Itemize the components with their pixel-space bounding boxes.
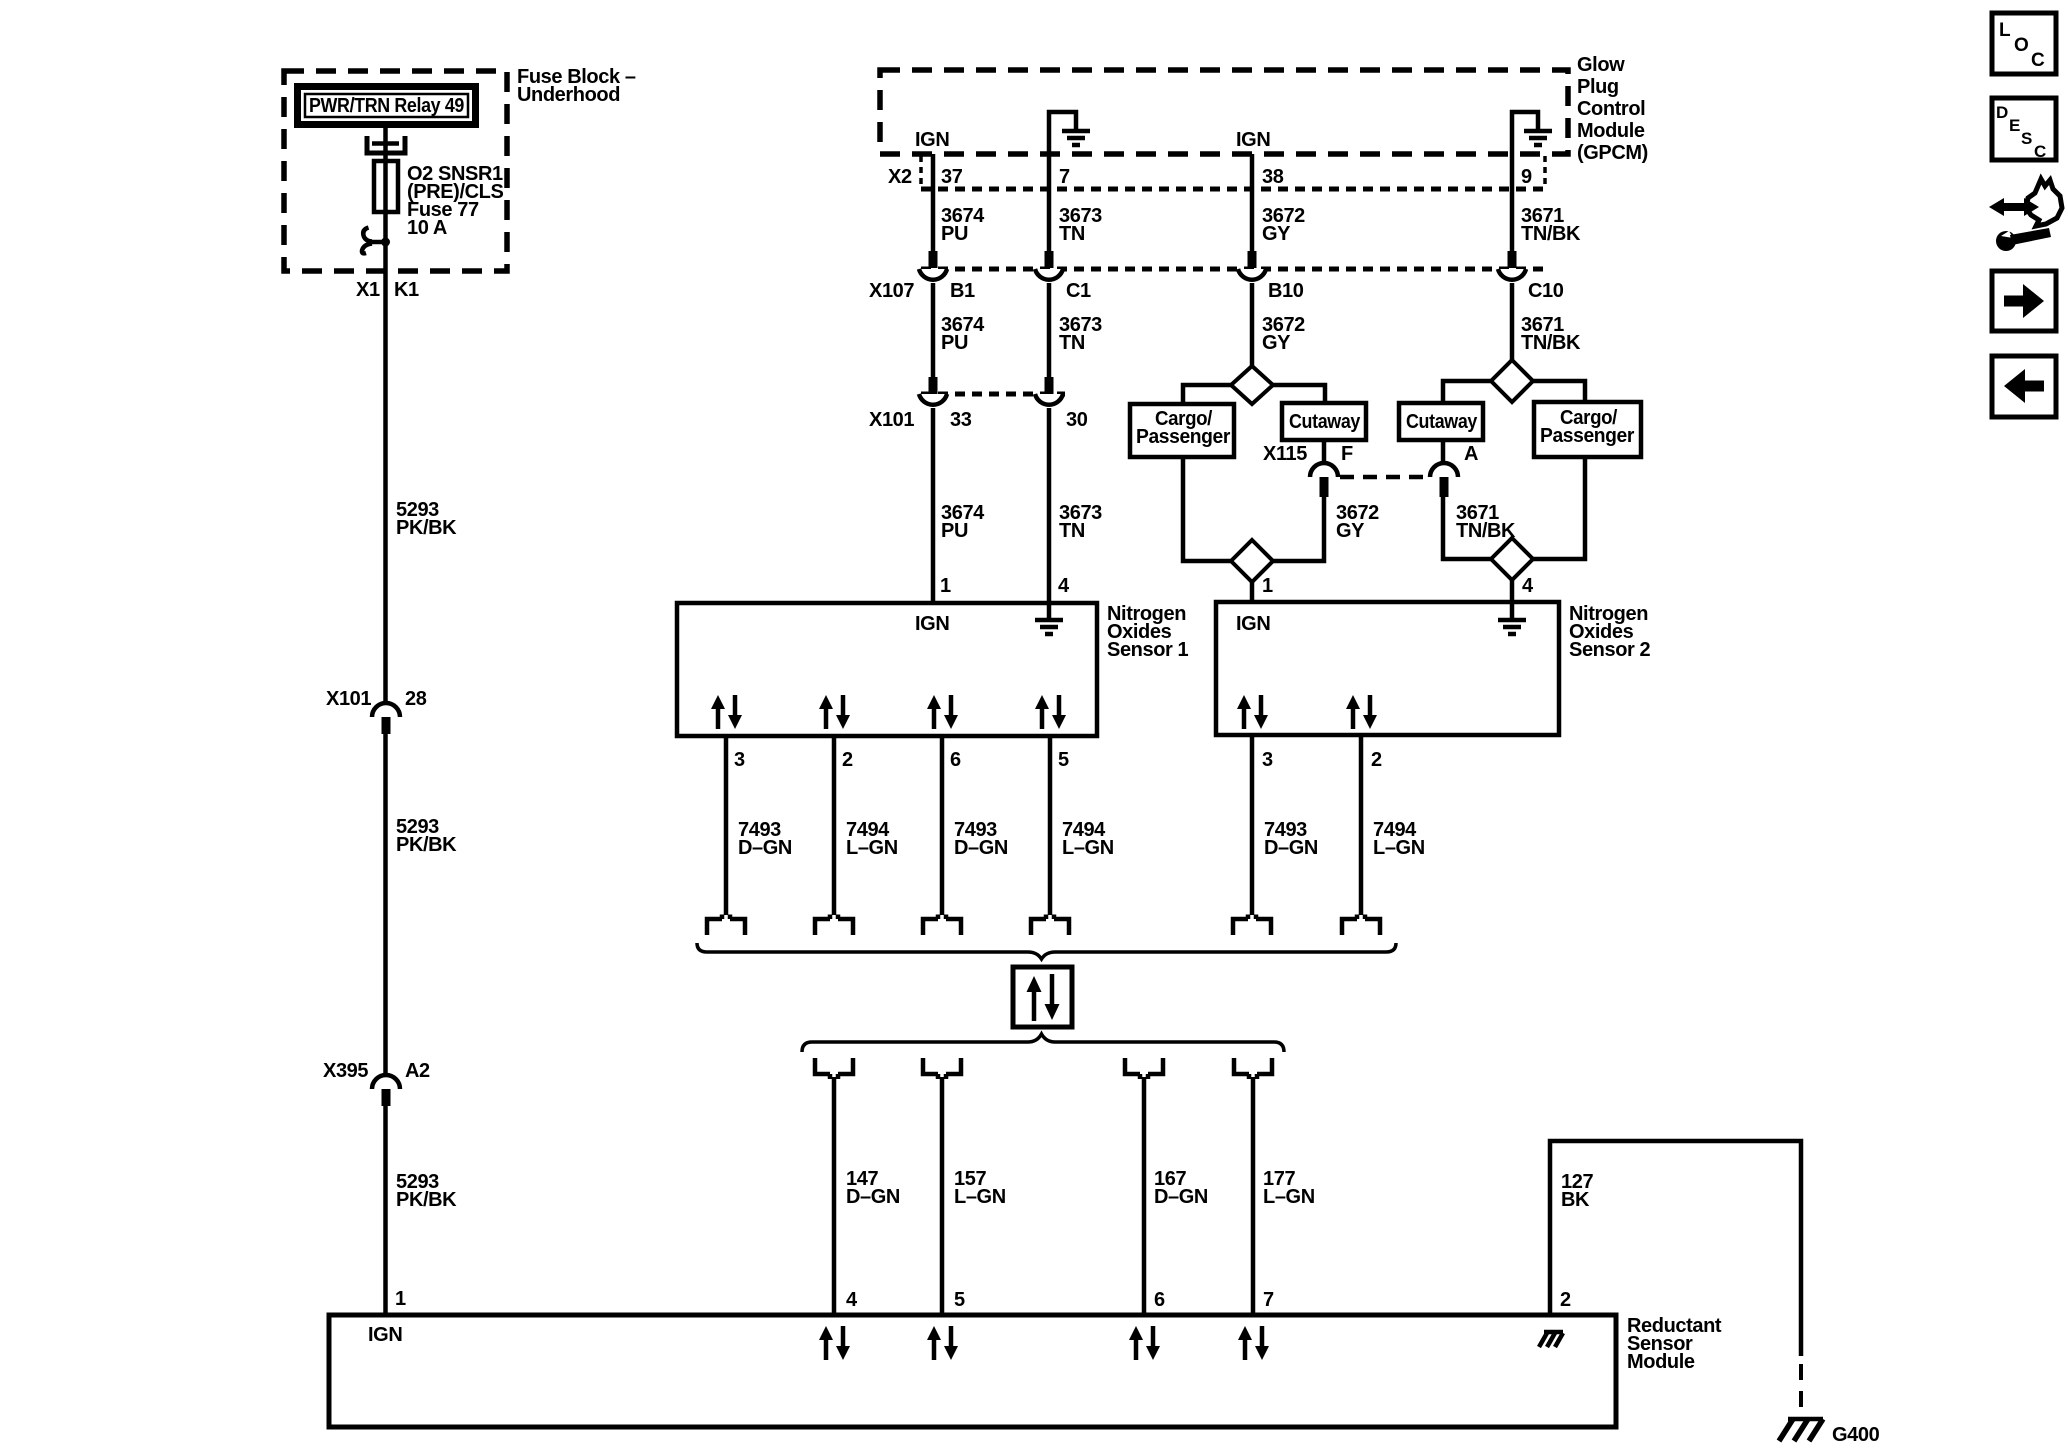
svg-text:D–GN: D–GN	[738, 837, 792, 859]
wire diamond to cargo/passenger 2	[1533, 381, 1585, 402]
chassis ground inside module at pin 2	[1539, 1332, 1563, 1347]
connector X395 pin A2	[323, 1060, 430, 1106]
connector X115 dashed link	[1340, 475, 1428, 480]
connector X107 line	[921, 267, 1545, 272]
svg-text:1: 1	[940, 575, 951, 597]
data arrows NOx1 pin2	[819, 695, 850, 729]
splice diamond upper left	[1231, 366, 1273, 404]
data arrows module pin7	[1238, 1326, 1269, 1360]
svg-text:2: 2	[1371, 749, 1382, 771]
svg-text:37: 37	[941, 166, 963, 188]
svg-text:G400: G400	[1832, 1424, 1880, 1446]
data arrows module pin4	[819, 1326, 850, 1360]
svg-text:C1: C1	[1066, 280, 1091, 302]
svg-text:TN: TN	[1059, 520, 1085, 542]
serial data symbol box with arrows	[1013, 967, 1072, 1027]
svg-text:28: 28	[405, 688, 427, 710]
wire 7494 L-GN from NOx2 pin2	[1359, 735, 1364, 915]
svg-text:38: 38	[1262, 166, 1284, 188]
wire 5293 PK/BK segment 3	[383, 1106, 388, 1315]
svg-text:TN: TN	[1059, 332, 1085, 354]
twisted pair source above wire 942	[923, 1058, 961, 1079]
svg-text:D: D	[1996, 103, 2008, 122]
svg-text:7: 7	[1263, 1289, 1274, 1311]
twisted pair terminal under wire 1252	[1233, 915, 1271, 936]
ground symbol inside GPCM at pin 9	[1512, 112, 1552, 154]
svg-text:Passenger: Passenger	[1136, 426, 1231, 448]
svg-text:IGN: IGN	[915, 613, 949, 635]
fuse F77 body O2 SNSR1 (PRE)/CLS Fuse 77 10A	[374, 161, 398, 212]
svg-text:B1: B1	[950, 280, 975, 302]
svg-text:IGN: IGN	[368, 1324, 402, 1346]
svg-text:5: 5	[954, 1289, 965, 1311]
wire diamond to NOx sensor2 pin 4	[1510, 580, 1515, 602]
svg-text:Module: Module	[1627, 1351, 1695, 1373]
connector X107 pin B10	[1238, 251, 1304, 302]
data arrows NOx2 pin3	[1237, 695, 1268, 729]
svg-text:O: O	[2014, 35, 2029, 56]
icon arrow right box	[1992, 271, 2056, 331]
data arrows NOx1 pin3	[711, 695, 742, 729]
svg-text:Sensor 1: Sensor 1	[1107, 639, 1189, 661]
svg-text:7: 7	[1059, 166, 1070, 188]
wire diamond to cargo/passenger 1	[1183, 385, 1231, 404]
wire 3674 PU segment 1	[931, 154, 936, 251]
svg-text:4: 4	[846, 1289, 858, 1311]
ground G400	[1779, 1419, 1880, 1446]
connector X115 pin A	[1430, 443, 1478, 497]
svg-text:2: 2	[1560, 1289, 1571, 1311]
wire 157 L-GN	[940, 1077, 945, 1315]
svg-text:Cutaway: Cutaway	[1406, 411, 1478, 433]
data arrows NOx1 pin6	[927, 695, 958, 729]
nitrogen oxides sensor 2 box	[1216, 602, 1559, 735]
ground symbol inside GPCM at pin 7	[1049, 112, 1090, 154]
svg-text:C10: C10	[1528, 280, 1564, 302]
svg-text:4: 4	[1522, 575, 1534, 597]
wire 147 D-GN	[832, 1077, 837, 1315]
svg-text:X1: X1	[356, 279, 380, 301]
svg-text:4: 4	[1058, 575, 1070, 597]
wire 7494 L-GN from pin5	[1048, 736, 1053, 915]
connector X107 pin C10	[1498, 251, 1564, 302]
wire 177 L-GN	[1251, 1077, 1256, 1315]
svg-text:TN: TN	[1059, 223, 1085, 245]
twisted pair terminal under wire 942	[923, 915, 961, 936]
reductant sensor module box	[329, 1315, 1616, 1427]
svg-text:6: 6	[950, 749, 961, 771]
data arrows module pin6	[1129, 1326, 1160, 1360]
svg-text:L–GN: L–GN	[846, 837, 898, 859]
connector X115 pin F	[1263, 443, 1353, 497]
wire 127 BK dashed to G400	[1799, 1364, 1803, 1412]
wire 3671 TN/BK segment 3	[1443, 497, 1491, 559]
data arrows module pin5	[927, 1326, 958, 1360]
wire 127 BK from pin 2	[1550, 1141, 1801, 1356]
twisted pair source above wire 1144	[1125, 1058, 1163, 1079]
box cutaway 1	[1282, 403, 1366, 440]
svg-text:X101: X101	[869, 409, 914, 431]
wire 7493 D-GN from pin3	[724, 736, 729, 915]
icon DESC box	[1992, 98, 2056, 161]
wire 3674 PU segment 2	[931, 283, 936, 377]
svg-text:2: 2	[842, 749, 853, 771]
svg-text:Passenger: Passenger	[1540, 425, 1635, 447]
svg-text:PU: PU	[941, 520, 968, 542]
twisted pair terminal under wire 726	[707, 915, 745, 936]
svg-text:L: L	[1999, 20, 2011, 41]
wire 167 D-GN	[1142, 1077, 1147, 1315]
wire cargo/passenger2 down	[1533, 457, 1585, 559]
wire 3671 TN/BK segment 1	[1510, 154, 1515, 251]
wire 3672 GY segment 2	[1250, 283, 1255, 366]
icon hand with arrow and wrench	[1989, 179, 2062, 251]
svg-text:PK/BK: PK/BK	[396, 1189, 457, 1211]
fuse holder clip	[367, 136, 405, 153]
wire 3673 TN segment 3	[1047, 408, 1052, 603]
splice diamond upper right	[1491, 360, 1533, 402]
svg-text:D–GN: D–GN	[1154, 1186, 1208, 1208]
svg-text:PK/BK: PK/BK	[396, 834, 457, 856]
svg-text:X107: X107	[869, 280, 914, 302]
svg-text:C: C	[2031, 50, 2045, 71]
svg-text:Plug: Plug	[1577, 76, 1619, 98]
wire 3673 TN segment 2	[1047, 283, 1052, 377]
svg-text:C: C	[2034, 142, 2046, 161]
svg-text:IGN: IGN	[1236, 613, 1270, 635]
svg-text:PWR/TRN Relay 49: PWR/TRN Relay 49	[309, 95, 464, 117]
svg-text:GY: GY	[1262, 332, 1291, 354]
svg-text:PU: PU	[941, 332, 968, 354]
wire 3672 GY segment 3	[1273, 497, 1324, 561]
svg-text:L–GN: L–GN	[1373, 837, 1425, 859]
wire cargo/passenger1 down	[1183, 457, 1231, 561]
relay K1 PWR/TRN Relay 49	[298, 87, 476, 125]
svg-text:IGN: IGN	[915, 129, 949, 151]
svg-text:Control: Control	[1577, 98, 1645, 120]
connector X101 pin 30	[1035, 377, 1088, 431]
svg-text:L–GN: L–GN	[1263, 1186, 1315, 1208]
svg-text:PU: PU	[941, 223, 968, 245]
svg-text:TN/BK: TN/BK	[1456, 520, 1516, 542]
wire cutaway1 to X115 F	[1322, 440, 1327, 464]
svg-text:TN/BK: TN/BK	[1521, 332, 1581, 354]
ground symbol inside NOx2	[1498, 602, 1526, 634]
data arrows NOx1 pin5	[1035, 695, 1066, 729]
svg-text:GY: GY	[1262, 223, 1291, 245]
svg-text:S: S	[2021, 129, 2032, 148]
svg-text:B10: B10	[1268, 280, 1304, 302]
wire relay to fuse	[383, 128, 388, 271]
splice diamond lower right	[1491, 538, 1533, 580]
ground symbol inside NOx1	[1035, 603, 1063, 634]
wire 7493 D-GN from NOx2 pin3	[1250, 735, 1255, 915]
switch contact hooks	[363, 228, 372, 242]
svg-text:D–GN: D–GN	[1264, 837, 1318, 859]
wire 3674 PU segment 3	[931, 408, 936, 603]
svg-text:(GPCM): (GPCM)	[1577, 142, 1648, 164]
svg-text:X101: X101	[326, 688, 371, 710]
twisted pair source above wire 1253	[1234, 1058, 1272, 1079]
connector X101 pin 33	[919, 377, 972, 431]
twisted pair source above wire 834	[815, 1058, 853, 1079]
svg-text:IGN: IGN	[1236, 129, 1270, 151]
distribute brace lower	[802, 1034, 1284, 1052]
svg-text:6: 6	[1154, 1289, 1165, 1311]
svg-text:GY: GY	[1336, 520, 1365, 542]
svg-text:A2: A2	[405, 1060, 430, 1082]
fuse block - underhood dashed box	[284, 71, 507, 271]
gather brace upper	[697, 943, 1396, 959]
svg-text:L–GN: L–GN	[954, 1186, 1006, 1208]
wire 3672 GY segment 1	[1250, 154, 1255, 251]
box cutaway 2	[1399, 403, 1483, 440]
splice diamond lower left	[1231, 540, 1273, 582]
wire 5293 PK/BK segment 2	[383, 734, 388, 1075]
glow plug control module GPCM dashed box	[880, 70, 1568, 154]
box cargo/passenger 1	[1130, 404, 1234, 457]
wire 5293 PK/BK segment 1	[383, 271, 388, 703]
connector X107 pin B1	[919, 251, 975, 302]
svg-text:K1: K1	[394, 279, 419, 301]
svg-text:L–GN: L–GN	[1062, 837, 1114, 859]
svg-text:30: 30	[1066, 409, 1088, 431]
icon arrow left box	[1992, 356, 2056, 417]
wire diamond to NOx sensor2 pin 1	[1250, 582, 1255, 602]
wire cutaway2 to X115 A	[1441, 440, 1446, 464]
svg-text:X395: X395	[323, 1060, 368, 1082]
svg-text:D–GN: D–GN	[954, 837, 1008, 859]
wire 3673 TN segment 1	[1047, 154, 1052, 251]
twisted pair terminal under wire 834	[815, 915, 853, 936]
twisted pair terminal under wire 1361	[1342, 915, 1380, 936]
svg-text:X115: X115	[1263, 443, 1307, 465]
wire 3671 TN/BK segment 2	[1510, 283, 1515, 360]
connector X107 pin C1	[1035, 251, 1091, 302]
wire diamond to cutaway 2	[1443, 381, 1491, 403]
svg-text:10 A: 10 A	[407, 217, 447, 239]
data arrows NOx2 pin2	[1346, 695, 1377, 729]
svg-text:PK/BK: PK/BK	[396, 517, 457, 539]
svg-text:3: 3	[1262, 749, 1273, 771]
connector X2 line	[888, 156, 1545, 189]
connector X101 line	[921, 392, 1065, 397]
svg-text:Underhood: Underhood	[517, 84, 620, 106]
svg-text:D–GN: D–GN	[846, 1186, 900, 1208]
svg-text:1: 1	[395, 1288, 406, 1310]
svg-text:A: A	[1464, 443, 1478, 465]
svg-text:E: E	[2009, 116, 2020, 135]
icon LOC box	[1992, 13, 2056, 74]
twisted pair terminal under wire 1050	[1031, 915, 1069, 936]
svg-text:F: F	[1341, 443, 1353, 465]
svg-text:5: 5	[1058, 749, 1069, 771]
box cargo/passenger 2	[1534, 402, 1641, 457]
svg-text:Glow: Glow	[1577, 54, 1625, 76]
svg-text:33: 33	[950, 409, 972, 431]
wire diamond to cutaway 1	[1273, 385, 1325, 403]
svg-text:Cutaway: Cutaway	[1289, 411, 1361, 433]
connector X101 pin 28	[326, 688, 427, 734]
svg-text:X2: X2	[888, 166, 912, 188]
svg-text:1: 1	[1262, 575, 1273, 597]
svg-text:9: 9	[1521, 166, 1532, 188]
svg-text:Module: Module	[1577, 120, 1645, 142]
wire 7494 L-GN from pin2	[832, 736, 837, 915]
svg-text:Sensor 2: Sensor 2	[1569, 639, 1651, 661]
nitrogen oxides sensor 1 box	[677, 603, 1097, 736]
wire 7493 D-GN from pin6	[940, 736, 945, 915]
svg-text:TN/BK: TN/BK	[1521, 223, 1581, 245]
svg-text:3: 3	[734, 749, 745, 771]
fuse top terminal T-bar	[372, 141, 399, 146]
svg-text:BK: BK	[1561, 1189, 1590, 1211]
